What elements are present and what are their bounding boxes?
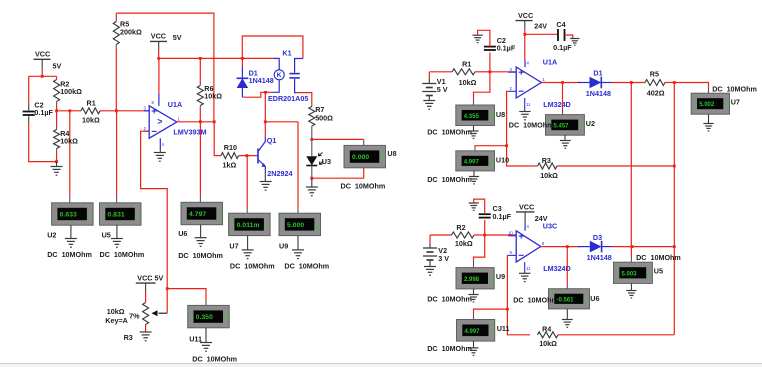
node R5 output junction bbox=[673, 81, 709, 93]
resistor R5 402 bbox=[645, 70, 674, 98]
svg-text:0.1µF: 0.1µF bbox=[553, 43, 572, 52]
svg-text:+: + bbox=[457, 153, 460, 159]
svg-text:100kΩ: 100kΩ bbox=[60, 87, 82, 96]
svg-text:U10: U10 bbox=[496, 156, 509, 165]
ground (C2 right) bbox=[473, 35, 483, 42]
svg-text:0.011m: 0.011m bbox=[237, 222, 260, 229]
svg-text:U8: U8 bbox=[496, 110, 505, 119]
voltmeter U8 (4.355) bbox=[427, 105, 505, 138]
voltmeter U6 (-0.561) bbox=[513, 289, 599, 328]
svg-text:1N4148: 1N4148 bbox=[249, 76, 274, 85]
svg-text:U7: U7 bbox=[731, 98, 740, 107]
svg-text:1kΩ: 1kΩ bbox=[223, 160, 237, 169]
voltmeter U7 (0.011m) bbox=[229, 213, 275, 270]
svg-text:+: + bbox=[345, 148, 348, 154]
svg-text:C4: C4 bbox=[556, 20, 565, 29]
ground (potentiometer) bbox=[140, 331, 152, 341]
svg-text:LM324D: LM324D bbox=[543, 264, 571, 273]
ground (V2) bbox=[424, 267, 436, 276]
ground (V1) bbox=[423, 101, 435, 110]
svg-text:5.002: 5.002 bbox=[699, 102, 715, 108]
svg-text:U9: U9 bbox=[496, 272, 505, 281]
voltmeter U10 (4.997) bbox=[427, 151, 509, 184]
svg-text:+: + bbox=[182, 205, 185, 211]
node R2/C3 junction bbox=[483, 234, 516, 237]
svg-text:DC 10MOhm: DC 10MOhm bbox=[230, 261, 275, 270]
svg-text:DC 10MOhm: DC 10MOhm bbox=[284, 261, 329, 270]
wire C2 bottom to ground rail bbox=[29, 116, 57, 161]
wire V2 to R2 bbox=[430, 234, 452, 236]
wire feedback node to voltmeter U11 (right) bbox=[474, 309, 508, 319]
svg-text:U2: U2 bbox=[47, 231, 56, 240]
svg-text:D3: D3 bbox=[593, 233, 602, 242]
resistor R6 10k bbox=[197, 57, 222, 122]
svg-text:U3: U3 bbox=[322, 157, 331, 166]
ground (LED cathode) bbox=[306, 178, 318, 196]
svg-text:U6: U6 bbox=[178, 229, 187, 238]
svg-text:0.1µF: 0.1µF bbox=[497, 43, 516, 52]
svg-text:U11: U11 bbox=[497, 324, 510, 333]
wire input node down to voltmeter U8 (right) bbox=[474, 72, 490, 105]
svg-text:R4: R4 bbox=[542, 325, 551, 334]
resistor R2 100k bbox=[54, 76, 83, 111]
wire from VCC rail down to C2 top bbox=[28, 76, 30, 110]
svg-text:10kΩ: 10kΩ bbox=[60, 137, 78, 146]
capacitor C3 0.1uF bbox=[474, 199, 512, 235]
svg-text:200kΩ: 200kΩ bbox=[120, 28, 142, 37]
svg-text:+: + bbox=[457, 270, 460, 276]
wire divider node to R1 bbox=[57, 109, 81, 112]
wire node down to voltmeter U5 bbox=[116, 111, 118, 203]
svg-text:4.997: 4.997 bbox=[465, 329, 481, 335]
voltmeter U5 (0.831) bbox=[100, 203, 145, 259]
svg-text:10: 10 bbox=[508, 231, 513, 236]
wire LED anode node to voltmeter U8 bbox=[312, 139, 364, 145]
svg-text:LMV393M: LMV393M bbox=[173, 127, 206, 136]
ground (U1A pin 11) bbox=[519, 109, 530, 120]
svg-text:+: + bbox=[230, 215, 233, 221]
wire output down to voltmeter U2 (right) bbox=[562, 83, 564, 115]
svg-text:DC 10MOhm: DC 10MOhm bbox=[192, 354, 237, 363]
svg-text:0.1µF: 0.1µF bbox=[493, 212, 512, 221]
wire contact output to R7 bbox=[297, 93, 312, 103]
node R7/LED junction bbox=[310, 138, 313, 141]
wire VCC stem to divider top rail bbox=[29, 69, 57, 78]
voltage source V2 3V bbox=[423, 235, 449, 267]
power VCC 5V supply symbol (top-left) bbox=[34, 49, 62, 70]
svg-text:DC 10MOhm: DC 10MOhm bbox=[636, 253, 681, 262]
wire V1 to R1 bbox=[429, 71, 452, 73]
svg-text:R5: R5 bbox=[650, 70, 659, 79]
node R10/base junction bbox=[245, 154, 248, 157]
svg-text:DC 10MOhm: DC 10MOhm bbox=[341, 182, 386, 191]
svg-text:10kΩ: 10kΩ bbox=[107, 307, 125, 316]
diode D1 1N4148 (flyback) bbox=[237, 57, 274, 97]
relay K1 EDR201A05 coil bbox=[242, 36, 308, 103]
svg-text:10kΩ: 10kΩ bbox=[455, 239, 473, 248]
resistor R2 10k (right) bbox=[452, 223, 485, 248]
power VCC 5V (potentiometer) bbox=[136, 274, 164, 292]
potentiometer R3 10k Key=A 7% bbox=[105, 292, 167, 343]
svg-text:5 V: 5 V bbox=[437, 85, 448, 94]
wire input node down to voltmeter U9 (right) bbox=[474, 235, 485, 268]
svg-text:VCC: VCC bbox=[519, 203, 534, 212]
relay K1 contact bbox=[289, 59, 303, 93]
svg-text:1N4148: 1N4148 bbox=[586, 89, 611, 98]
wire junction down to voltmeter U2 bbox=[69, 111, 71, 203]
voltmeter U9 (5.000) bbox=[279, 213, 329, 270]
svg-text:-0.561: -0.561 bbox=[557, 297, 575, 303]
wire base node down to voltmeter U7 bbox=[246, 156, 248, 214]
voltmeter U11 (0.350) bbox=[188, 305, 237, 363]
svg-text:0.000: 0.000 bbox=[352, 154, 369, 161]
svg-text:>: > bbox=[157, 117, 162, 127]
svg-text:24V: 24V bbox=[534, 21, 547, 30]
svg-text:U1A: U1A bbox=[543, 58, 557, 67]
svg-text:U3C: U3C bbox=[543, 222, 557, 231]
capacitor C2 0.1uF (right) bbox=[478, 30, 516, 72]
voltmeter U6 (4.797) bbox=[178, 202, 223, 259]
svg-text:+: + bbox=[101, 205, 104, 211]
svg-text:VCC: VCC bbox=[151, 31, 166, 40]
voltmeter U9 (2.998) bbox=[427, 268, 505, 304]
svg-text:11: 11 bbox=[526, 102, 531, 107]
ground (divider bottom) bbox=[51, 160, 63, 175]
svg-text:U6: U6 bbox=[590, 294, 599, 303]
node D3 cathode junction bbox=[613, 245, 675, 248]
voltmeter U7 (5.002) bbox=[691, 85, 757, 131]
svg-text:DC 10MOhm: DC 10MOhm bbox=[427, 295, 472, 304]
svg-text:DC 10MOhm: DC 10MOhm bbox=[427, 175, 472, 184]
svg-text:0.1µF: 0.1µF bbox=[34, 108, 53, 117]
svg-text:U1A: U1A bbox=[168, 100, 182, 109]
svg-text:+: + bbox=[457, 107, 460, 113]
svg-text:DC 10MOhm: DC 10MOhm bbox=[513, 295, 558, 304]
wire R1 node to op-amp + input bbox=[116, 110, 149, 112]
resistor R1 10k (right) bbox=[452, 60, 490, 87]
svg-text:D1: D1 bbox=[593, 69, 602, 78]
LED U3 indicator bbox=[306, 139, 331, 178]
svg-text:0.350: 0.350 bbox=[196, 314, 213, 321]
wire D3 node down to voltmeter U5 bbox=[630, 247, 632, 263]
wire VCC stem to op-amp supply bbox=[523, 28, 526, 67]
wire output to R10 bbox=[214, 122, 221, 156]
ground (C3) bbox=[469, 203, 479, 210]
wire feedback top rail bbox=[116, 13, 214, 122]
wire inverting input feedback (lower) bbox=[506, 255, 530, 334]
wire D1 cathode row bbox=[612, 81, 645, 84]
svg-text:5V: 5V bbox=[173, 33, 182, 42]
svg-text:500Ω: 500Ω bbox=[315, 114, 333, 123]
svg-text:EDR201A05: EDR201A05 bbox=[268, 94, 308, 103]
svg-text:11: 11 bbox=[526, 266, 531, 271]
resistor R1 10k bbox=[81, 98, 116, 124]
svg-text:+: + bbox=[458, 322, 461, 328]
svg-text:U5: U5 bbox=[654, 267, 663, 276]
voltmeter U8 (0.000) bbox=[341, 145, 397, 190]
resistor R5 200k (feedback) bbox=[113, 13, 142, 111]
voltmeter U2 (0.633) bbox=[47, 203, 93, 259]
svg-text:+: + bbox=[53, 205, 56, 211]
wire inverting input feedback (upper) bbox=[505, 91, 530, 166]
node LED cathode junction bbox=[310, 168, 363, 180]
wire D1 node down to D3 node bbox=[630, 83, 632, 247]
ground (C4) bbox=[570, 39, 579, 46]
svg-text:402Ω: 402Ω bbox=[647, 89, 665, 98]
node collector junction bbox=[264, 120, 298, 123]
resistor R4 10k bbox=[54, 111, 79, 162]
diode D1 1N4148 (right) bbox=[578, 69, 612, 98]
node wiper junction bbox=[166, 287, 206, 313]
svg-text:0.831: 0.831 bbox=[108, 212, 125, 219]
node divider midpoint junction bbox=[55, 109, 58, 112]
capacitor C2 0.1uF bbox=[23, 100, 54, 117]
svg-text:R3: R3 bbox=[124, 333, 133, 342]
svg-text:U7: U7 bbox=[229, 241, 238, 250]
wire inverting input to potentiometer wiper bbox=[141, 131, 168, 288]
power VCC 5V (op-amp supply) bbox=[150, 31, 182, 50]
svg-text:4.355: 4.355 bbox=[464, 114, 480, 120]
svg-text:5.000: 5.000 bbox=[287, 222, 304, 229]
svg-text:5.003: 5.003 bbox=[622, 271, 638, 277]
node R1/C2 junction bbox=[489, 70, 517, 73]
wire collector node down to voltmeter U9 bbox=[297, 122, 299, 213]
resistor R3 10k (feedback) bbox=[530, 156, 674, 180]
svg-text:K1: K1 bbox=[282, 48, 291, 57]
svg-text:Key=A: Key=A bbox=[105, 316, 128, 325]
window bottom edge bbox=[0, 364, 762, 367]
svg-text:DC 10MOhm: DC 10MOhm bbox=[427, 344, 472, 353]
svg-text:10kΩ: 10kΩ bbox=[204, 91, 222, 100]
svg-text:DC 10MOhm: DC 10MOhm bbox=[427, 128, 472, 137]
svg-text:2N2924: 2N2924 bbox=[267, 169, 292, 178]
resistor R4 10k (feedback) bbox=[538, 325, 675, 348]
svg-text:DC 10MOhm: DC 10MOhm bbox=[712, 85, 757, 94]
svg-text:DC 10MOhm: DC 10MOhm bbox=[47, 250, 92, 259]
svg-text:5.457: 5.457 bbox=[554, 123, 570, 129]
op-amp U1A LM324D bbox=[508, 58, 570, 110]
svg-text:R1: R1 bbox=[462, 60, 471, 69]
wire op-amp output row bbox=[177, 120, 216, 123]
svg-text:+: + bbox=[615, 264, 618, 270]
svg-text:DC 10MOhm: DC 10MOhm bbox=[509, 121, 554, 130]
svg-text:R2: R2 bbox=[456, 223, 465, 232]
svg-text:U2: U2 bbox=[586, 119, 595, 128]
svg-text:2.998: 2.998 bbox=[464, 277, 480, 283]
wire relay coil bottom net bbox=[242, 80, 279, 122]
node non-inverting input junction bbox=[115, 109, 118, 112]
wire output down to voltmeter U6 (right) bbox=[566, 247, 568, 289]
svg-text:10kΩ: 10kΩ bbox=[82, 115, 100, 124]
wire VCC supply rail bbox=[157, 50, 273, 94]
svg-text:3 V: 3 V bbox=[438, 254, 449, 263]
op-amp U1A LMV393M comparator bbox=[144, 94, 207, 149]
svg-text:R3: R3 bbox=[542, 156, 551, 165]
resistor R7 500 bbox=[309, 103, 333, 139]
svg-text:VCC: VCC bbox=[35, 49, 50, 58]
voltage source V1 5V bbox=[422, 72, 447, 101]
power VCC 24V symbol (top) bbox=[516, 11, 548, 30]
svg-text:R1: R1 bbox=[87, 98, 96, 107]
svg-text:DC 10MOhm: DC 10MOhm bbox=[100, 250, 145, 259]
svg-text:LM324D: LM324D bbox=[543, 100, 571, 109]
svg-text:10kΩ: 10kΩ bbox=[539, 339, 557, 348]
ground (op-amp pin 4) bbox=[154, 149, 166, 161]
svg-text:10kΩ: 10kΩ bbox=[459, 78, 477, 87]
svg-text:U5: U5 bbox=[102, 231, 111, 240]
ground (Q1 emitter) bbox=[260, 170, 272, 190]
svg-text:+: + bbox=[189, 308, 192, 314]
svg-text:+: + bbox=[280, 215, 283, 221]
voltmeter U5 (5.003) bbox=[614, 253, 681, 298]
voltmeter U2 (5.457) bbox=[509, 115, 595, 149]
svg-text:4.797: 4.797 bbox=[189, 211, 206, 218]
svg-text:U8: U8 bbox=[387, 149, 396, 158]
svg-text:K: K bbox=[277, 72, 282, 79]
wire output down to voltmeter U6 bbox=[199, 122, 201, 203]
wire op-amp output row (right) bbox=[541, 81, 580, 84]
svg-text:4.997: 4.997 bbox=[464, 159, 480, 165]
svg-text:1N4148: 1N4148 bbox=[587, 253, 612, 262]
svg-text:5V: 5V bbox=[53, 61, 62, 70]
svg-text:Q1: Q1 bbox=[267, 136, 277, 145]
voltmeter U11 (4.997) bbox=[427, 320, 509, 356]
resistor R10 1k bbox=[221, 143, 258, 170]
diode D3 1N4148 bbox=[578, 233, 613, 262]
op-amp U3C LM324D bbox=[508, 222, 571, 274]
svg-text:+: + bbox=[693, 95, 696, 101]
svg-text:0.633: 0.633 bbox=[60, 212, 77, 219]
ground (U3C pin 11) bbox=[519, 273, 530, 282]
svg-text:DC 10MOhm: DC 10MOhm bbox=[178, 251, 223, 260]
svg-text:10kΩ: 10kΩ bbox=[540, 171, 558, 180]
transistor Q1 2N2924 NPN bbox=[258, 136, 292, 178]
svg-text:R10: R10 bbox=[224, 143, 237, 152]
wire op-amp output row (lower) bbox=[541, 245, 580, 248]
svg-text:7%: 7% bbox=[129, 312, 140, 321]
wire collector to relay node bbox=[264, 122, 266, 137]
wire feedback node to voltmeter U10 bbox=[475, 146, 507, 151]
svg-text:VCC: VCC bbox=[518, 11, 533, 20]
svg-text:U9: U9 bbox=[279, 241, 288, 250]
svg-text:VCC 5V: VCC 5V bbox=[137, 274, 163, 283]
wire R5 node down to R3/R4 rail bbox=[673, 83, 676, 335]
capacitor C4 0.1uF (decoupling) bbox=[525, 20, 573, 52]
power VCC 24V symbol (lower) bbox=[516, 203, 548, 231]
